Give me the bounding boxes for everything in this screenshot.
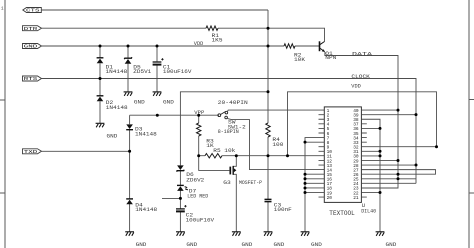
wire: VDD left segment and D6/D7/C2 chain at x=180.4 [180, 92, 268, 232]
switch SW1-2 contacts [218, 111, 228, 119]
svg-text:1N4148: 1N4148 [106, 69, 128, 75]
junction: pin 30/right GND bus [379, 154, 382, 157]
diode D4 1N4148 [126, 199, 133, 204]
svg-text:10K: 10K [294, 57, 306, 63]
wire: C1 column at x=157 [156, 46, 158, 92]
wire: G3 drain/source column at x=236.3 [233, 156, 236, 232]
wire: pin 38 corner and right GND bus x=380 [361, 119, 380, 231]
connector flag TXD [23, 149, 42, 154]
svg-text:100: 100 [272, 142, 283, 148]
zener diode D6 ZD6V2 (pointing down) [177, 165, 185, 171]
wire: TXD line [42, 150, 130, 152]
wire: pin 32 to VDD [361, 146, 436, 148]
wire: pin 36 to GND bus [361, 127, 380, 129]
zener diode D5 ZD5V1 [124, 57, 132, 64]
wire: D1/D2 column at x=100 [99, 46, 101, 123]
transistor G3 MOSFET-P [230, 166, 236, 175]
svg-text:1N4148: 1N4148 [135, 131, 157, 137]
wire: VPP line (D3 corner to switch) [130, 114, 219, 116]
wire: pin 31 to GND bus [361, 150, 380, 152]
ground: below C1 [153, 92, 162, 96]
junction: pin 15/left GND bus [304, 173, 307, 176]
wire: CTS rail and x=268 vertical (CTS to R4/C3/ground) [41, 10, 268, 232]
junction: VDD vertical/node line [286, 154, 289, 157]
svg-text:ZD5V1: ZD5V1 [133, 69, 151, 75]
wire: RTS/CLOCK line and x=416 vertical [42, 79, 417, 184]
wire: pin 25 to CLOCK bottom corner [361, 178, 416, 180]
svg-text:MOSFET-P: MOSFET-P [239, 180, 262, 186]
svg-text:DATA: DATA [352, 51, 373, 57]
connector flag DTR [23, 26, 42, 31]
wire: stub into LED cathode node [162, 197, 180, 199]
IC right pin stubs (pins 37,35,34,33,21) [361, 124, 366, 197]
junction: pin 17/left GND bus [304, 182, 307, 185]
junction: pin 22/right GND bus [379, 191, 382, 194]
junction: R4-C3/node line [267, 154, 270, 157]
svg-text:100uF16V: 100uF16V [163, 69, 193, 75]
transistor Q1 NPN [320, 41, 325, 52]
wire: gate line from R3/R5 node to G3 gate [199, 156, 230, 171]
svg-text:1N4148: 1N4148 [106, 105, 128, 111]
IC pin numbers 1-20 (left column) [327, 108, 333, 201]
svg-text:100nF: 100nF [274, 207, 292, 213]
junction: pin 28/CLOCK [415, 164, 418, 167]
wire: DTR rail to Q1 collector [42, 28, 325, 41]
ground: below D2 [96, 123, 105, 127]
svg-text:VDD: VDD [351, 83, 361, 89]
svg-text:DIL40: DIL40 [361, 208, 376, 214]
junction: pin 25/DATA [397, 177, 400, 180]
junction: pin 16/left GND bus [304, 177, 307, 180]
junction: CTS/VDD rail [267, 45, 270, 48]
svg-text:GND: GND [136, 242, 147, 248]
svg-text:GND: GND [186, 242, 197, 248]
wire: D3/D4 chain at x=129.6 [129, 115, 131, 231]
svg-text:21: 21 [353, 195, 359, 201]
wire: pin 23 to DATA bottom corner [361, 187, 398, 189]
wire: DATA line from Q1 emitter and x=398 vertical [325, 52, 398, 188]
junction: C1/VDD rail [156, 45, 159, 48]
connector flag RTS [23, 76, 42, 81]
junction: pin 29/DATA [397, 159, 400, 162]
junction: VDD left segment/x=268 [267, 90, 270, 93]
junction: pin 36/right GND bus [379, 127, 382, 130]
junction: CTS/DTR [267, 27, 270, 30]
svg-text:20-40PIN: 20-40PIN [218, 100, 248, 106]
junction: pin 39/CLOCK [415, 113, 418, 116]
ground: below D5 [124, 92, 133, 96]
svg-text:GND: GND [386, 242, 397, 248]
junction: pin 8/left GND bus [304, 141, 307, 144]
junction: D1-D2/RTS [99, 77, 102, 80]
switch SW1-2 arm [221, 112, 226, 115]
wire: pin 29 to DATA [361, 159, 398, 161]
connector flag CTS [23, 8, 42, 13]
capacitor C3 100nF [265, 199, 272, 201]
junction: pin 31/right GND bus [379, 150, 382, 153]
svg-text:R5 10k: R5 10k [213, 148, 235, 154]
wire: pin 22 to GND bus [361, 192, 380, 194]
diode D3 1N4148 (pointing down) [126, 124, 133, 129]
svg-text:1K5: 1K5 [212, 38, 223, 44]
svg-text:GND: GND [24, 44, 38, 50]
svg-text:1N4148: 1N4148 [135, 207, 157, 213]
wire: pin 40 to DATA [361, 109, 398, 111]
svg-text:GND: GND [274, 242, 285, 248]
IC left pin stubs (pins 2-6,9,10,12,13,20) [319, 115, 325, 197]
IC left pin stubs (pins 15-19 to GND bus) [305, 174, 324, 192]
junction: G3 drain/node line [235, 154, 238, 157]
capacitor C1 100uF16V (electrolytic) [153, 58, 164, 65]
wire: VDD right rail and x=436.5 vertical [288, 92, 437, 156]
junction: D1/VDD rail [99, 45, 102, 48]
wire: VDD rail (GND flag to Q1 base) [42, 45, 320, 47]
svg-text:VDD: VDD [194, 41, 204, 47]
junction: R3/VPP line [197, 114, 200, 117]
junction: pin 18/left GND bus [304, 186, 307, 189]
junction: pin 19/left GND bus [304, 191, 307, 194]
svg-text:GND: GND [134, 100, 145, 106]
svg-text:GND: GND [107, 133, 118, 139]
resistor R1 [206, 26, 218, 30]
junction: D5/VDD rail [127, 45, 130, 48]
junction: pin 40/DATA [397, 109, 400, 112]
wire: pin 39 to CLOCK [361, 114, 416, 116]
wire: pin 24 to CLOCK vertical [361, 182, 416, 184]
svg-text:GND: GND [311, 242, 322, 248]
junction: stub / D6-D7 chain [179, 197, 182, 200]
svg-text:100uF16V: 100uF16V [186, 218, 216, 224]
ground: below G3 [232, 232, 241, 236]
svg-text:TXD: TXD [24, 149, 38, 155]
svg-text:ZD6V2: ZD6V2 [186, 178, 204, 184]
svg-text:G3: G3 [223, 180, 231, 186]
svg-text:GND: GND [242, 242, 253, 248]
wire: R3 branch from VPP [198, 115, 200, 156]
ground: below left GND bus [301, 232, 310, 236]
wire: pin 7/8 bracket and left GND bus x=305 [305, 138, 324, 232]
IC U TEXTOOL DIL40 socket body [324, 107, 361, 202]
svg-text:8-18PIN: 8-18PIN [218, 129, 239, 135]
wire: switch 20-40PIN throw to IC pin 1 [227, 110, 324, 112]
svg-text:TEXTOOL: TEXTOOL [329, 210, 355, 217]
connector flag GND [23, 44, 42, 49]
resistor R3 1K [197, 123, 201, 136]
resistor R2 [284, 44, 295, 48]
svg-text:CTS: CTS [26, 8, 40, 14]
diode D1 1N4148 [97, 58, 104, 64]
svg-text:GND: GND [163, 100, 174, 106]
ground: below C3 [264, 232, 273, 236]
IC pin numbers 40-21 (right column) [353, 108, 359, 201]
diode D2 1N4148 [97, 96, 104, 102]
svg-text:DTR: DTR [24, 26, 38, 32]
wire: D5 column at x=128 [127, 46, 129, 92]
resistor R4 100 [266, 123, 270, 137]
svg-text:CLOCK: CLOCK [351, 74, 371, 80]
junction: VPP line node [156, 114, 159, 117]
wire: pin 30 to GND bus [361, 155, 380, 157]
ground: below C2 [176, 232, 185, 236]
ground: below D4 [125, 232, 134, 236]
ground: below right GND bus [376, 232, 385, 236]
wire: pin 28 to CLOCK [361, 164, 416, 166]
wire: pin 27 wrap to pin 26 row [361, 170, 435, 175]
junction: pin 32/VDD [435, 145, 438, 148]
resistor R5 10k [205, 154, 222, 158]
junction: pin 26/DATA [397, 173, 400, 176]
LED D7 [177, 185, 188, 191]
junction: TXD/D3-D4 chain [128, 150, 131, 153]
wire: node line y=155.7 (R5 to IC pin 11) [199, 155, 325, 157]
svg-text:20: 20 [327, 195, 333, 201]
wire: switch 8-18PIN throw to IC pin 14 [227, 118, 324, 169]
svg-text:LED RED: LED RED [187, 194, 208, 200]
junction: R3-R5-gate node [197, 154, 200, 157]
svg-text:RTS: RTS [24, 76, 38, 82]
capacitor C2 100uF16V (electrolytic) [176, 205, 187, 211]
